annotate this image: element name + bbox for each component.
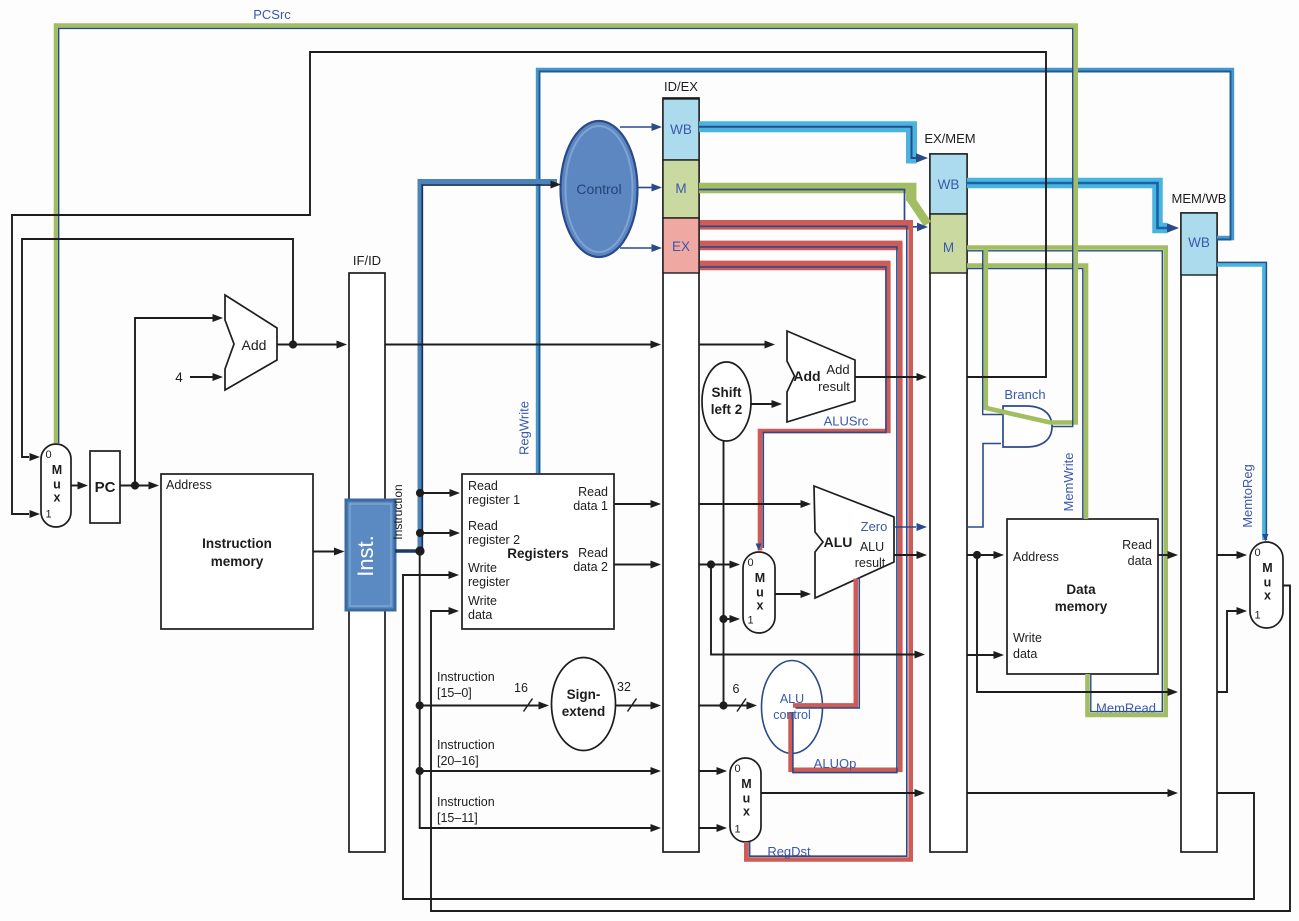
node read register 2 junction xyxy=(416,529,424,537)
wire pc-mux to PC xyxy=(71,485,78,487)
wire shift left 2 to branch Add xyxy=(750,403,772,405)
svg-text:M: M xyxy=(741,777,751,791)
svg-text:WB: WB xyxy=(1188,235,1210,250)
MEM/WB WB cell xyxy=(1181,213,1217,275)
svg-text:Read: Read xyxy=(468,519,498,533)
node ALU result junction xyxy=(973,551,981,559)
node instruction [20-16] junction xyxy=(416,767,424,775)
svg-text:u: u xyxy=(1264,576,1272,590)
mux M3 reg-dst xyxy=(730,758,761,842)
svg-text:M: M xyxy=(755,571,765,585)
wire Zero from ALU to EX/MEM xyxy=(894,526,916,528)
svg-text:1: 1 xyxy=(1254,610,1260,622)
wire ALU control output to ALU (red) xyxy=(793,579,856,706)
shift left 2 ellipse xyxy=(702,362,751,441)
wire Control to ID/EX M xyxy=(638,187,653,189)
wire Zero flag into AND gate xyxy=(967,444,1001,528)
svg-text:data: data xyxy=(1128,554,1152,568)
svg-text:PCSrc: PCSrc xyxy=(253,7,291,22)
bus width tick 32 xyxy=(628,699,637,712)
svg-text:Read: Read xyxy=(578,485,608,499)
wire PC to instruction memory xyxy=(120,485,149,487)
node immediate junction xyxy=(719,701,727,709)
svg-text:1: 1 xyxy=(45,509,51,521)
wire write data return path xyxy=(431,586,1290,912)
svg-text:ALUSrc: ALUSrc xyxy=(824,414,869,429)
wire instruction [15-0] to sign-extend xyxy=(420,705,539,707)
svg-text:Instruction: Instruction xyxy=(202,536,272,551)
wire Control to ID/EX WB xyxy=(620,126,652,128)
svg-text:data: data xyxy=(1013,647,1037,661)
svg-text:Instruction: Instruction xyxy=(437,795,495,809)
pipeline register MEM/WB xyxy=(1181,213,1217,852)
svg-text:MemRead: MemRead xyxy=(1096,701,1156,716)
wire instruction [20-16] to reg-dst mux xyxy=(699,770,717,772)
svg-text:0: 0 xyxy=(747,557,753,569)
svg-text:extend: extend xyxy=(562,704,606,719)
svg-text:WB: WB xyxy=(938,177,960,192)
svg-text:6: 6 xyxy=(733,682,740,696)
ALU control ellipse xyxy=(762,661,823,754)
svg-text:Data: Data xyxy=(1066,582,1096,597)
wire branch Add result to EX/MEM xyxy=(855,376,917,378)
wire alu-src mux to ALU xyxy=(775,593,801,595)
wire write register number return path xyxy=(403,575,1254,899)
wire read data 1 to ID/EX xyxy=(614,503,651,505)
svg-text:Control: Control xyxy=(576,181,621,197)
svg-text:memory: memory xyxy=(1055,599,1108,614)
svg-text:u: u xyxy=(53,478,61,492)
svg-text:Read: Read xyxy=(1122,538,1152,552)
svg-text:ALU: ALU xyxy=(780,692,804,706)
wire M bundle ID/EX to EX/MEM (green) xyxy=(699,188,911,201)
svg-text:data 1: data 1 xyxy=(573,499,608,513)
svg-text:Instruction: Instruction xyxy=(437,670,495,684)
svg-text:left 2: left 2 xyxy=(711,402,743,417)
svg-text:M: M xyxy=(675,181,686,196)
svg-text:EX: EX xyxy=(672,239,690,254)
EX/MEM WB cell xyxy=(930,154,967,214)
svg-text:register 2: register 2 xyxy=(468,533,520,547)
svg-text:16: 16 xyxy=(514,681,528,695)
svg-text:Read: Read xyxy=(578,546,608,560)
svg-text:register 1: register 1 xyxy=(468,493,520,507)
svg-text:x: x xyxy=(743,805,750,819)
svg-text:[20–16]: [20–16] xyxy=(437,754,479,768)
wire MemtoReg (cyan) xyxy=(1217,265,1264,541)
mux M1 pc-source xyxy=(41,444,71,527)
svg-text:memory: memory xyxy=(211,554,264,569)
wire ALUSrc control (red) xyxy=(700,261,891,271)
registers box xyxy=(462,474,614,629)
svg-text:x: x xyxy=(757,599,764,613)
wire ALU result to MEM/WB xyxy=(977,555,1168,692)
data memory box xyxy=(1007,519,1158,674)
wire Add output to IF/ID xyxy=(277,344,337,346)
svg-text:[15–11]: [15–11] xyxy=(437,811,478,825)
wire instruction bus highlight to Control xyxy=(420,182,557,552)
svg-text:Address: Address xyxy=(1013,550,1059,564)
svg-text:WB: WB xyxy=(670,122,692,137)
svg-text:u: u xyxy=(743,792,751,806)
bus width tick 6 xyxy=(737,699,746,712)
wire read data to mem-to-reg mux input 0 xyxy=(1217,554,1237,556)
svg-text:M: M xyxy=(1262,561,1272,575)
wire WB bundle ID/EX to EX/MEM (cyan) xyxy=(699,127,916,158)
svg-text:ALU: ALU xyxy=(824,534,853,550)
wire Branch signal into AND gate (green) xyxy=(983,248,988,410)
EX/MEM M cell xyxy=(930,214,967,273)
wire sign-extend to ID/EX xyxy=(616,705,652,707)
svg-text:EX/MEM: EX/MEM xyxy=(924,131,975,146)
svg-text:PC: PC xyxy=(95,479,116,496)
svg-text:Zero: Zero xyxy=(861,519,888,534)
svg-text:RegDst: RegDst xyxy=(767,844,811,859)
svg-text:ALUOp: ALUOp xyxy=(814,756,857,771)
svg-text:data 2: data 2 xyxy=(573,560,608,574)
wire immediate to ALU control xyxy=(699,705,747,707)
svg-text:1: 1 xyxy=(747,615,753,627)
wire read data 2 to alu-src mux input 0 xyxy=(699,564,730,566)
svg-text:32: 32 xyxy=(617,680,631,694)
svg-text:0: 0 xyxy=(734,763,740,775)
Inst. latch box xyxy=(346,500,395,610)
node read data 2 junction xyxy=(707,560,715,568)
svg-text:Add: Add xyxy=(242,337,267,353)
svg-text:Inst.: Inst. xyxy=(353,535,378,577)
pipeline register EX/MEM xyxy=(930,154,967,852)
node Add output junction xyxy=(289,340,297,348)
pipeline register IF/ID xyxy=(349,273,385,852)
wire read data 2 to data memory write data xyxy=(711,565,915,655)
svg-text:x: x xyxy=(54,491,61,505)
svg-text:Write: Write xyxy=(468,561,497,575)
wire instruction bus vertical xyxy=(420,551,651,828)
wire ALU result to EX/MEM xyxy=(894,554,917,556)
ID/EX M cell xyxy=(663,160,699,218)
svg-text:Sign-: Sign- xyxy=(567,687,601,702)
wire PC+4 from ID/EX to branch Add xyxy=(699,344,765,346)
wire Inst. box output stub xyxy=(395,549,420,553)
svg-text:IF/ID: IF/ID xyxy=(353,253,381,268)
wire data memory read data to MEM/WB xyxy=(1158,554,1168,556)
wire immediate to alu-src mux input 1 xyxy=(724,618,731,620)
svg-text:data: data xyxy=(468,608,492,622)
node PC output junction xyxy=(131,481,139,489)
svg-text:Branch: Branch xyxy=(1004,387,1045,402)
wire MemWrite (green) xyxy=(967,266,1086,520)
bus width tick 16 xyxy=(524,699,533,712)
svg-text:M: M xyxy=(52,463,62,477)
svg-text:MemWrite: MemWrite xyxy=(1061,453,1076,512)
svg-text:0: 0 xyxy=(45,449,51,461)
svg-text:Instruction: Instruction xyxy=(437,738,495,752)
svg-text:control: control xyxy=(773,708,811,722)
mux M4 mem-to-reg xyxy=(1250,542,1283,628)
svg-text:ID/EX: ID/EX xyxy=(664,79,698,94)
svg-text:Add: Add xyxy=(793,368,820,384)
wire read register 1 xyxy=(420,492,450,494)
ID/EX EX cell xyxy=(663,218,699,273)
svg-text:result: result xyxy=(855,556,886,570)
svg-text:1: 1 xyxy=(734,824,740,836)
adder Add (branch target) xyxy=(787,331,855,422)
svg-text:register: register xyxy=(468,575,510,589)
svg-text:Address: Address xyxy=(166,478,212,492)
wire write data from EX/MEM to data memory xyxy=(967,654,994,656)
mux M2 alu-src xyxy=(743,552,775,633)
wire ALU result to mem-to-reg mux input 1 xyxy=(1217,611,1237,692)
wire ALUOp control (red) xyxy=(700,241,903,251)
wire Control to ID/EX EX xyxy=(620,247,652,249)
svg-text:[15–0]: [15–0] xyxy=(437,686,472,700)
wire read data 2 to ID/EX xyxy=(614,564,651,566)
svg-text:result: result xyxy=(818,379,850,394)
control unit ellipse xyxy=(561,121,638,257)
wire PC+4 loop to pc-mux input 0 xyxy=(22,239,293,457)
svg-text:MEM/WB: MEM/WB xyxy=(1172,191,1227,206)
ID/EX WB cell xyxy=(663,99,699,160)
svg-text:x: x xyxy=(1264,589,1271,603)
wire immediate up to shift left 2 xyxy=(723,441,725,706)
wire instruction [20-16] to ID/EX xyxy=(420,770,651,772)
svg-text:M: M xyxy=(943,240,954,255)
svg-text:Read: Read xyxy=(468,479,498,493)
node read register 1 junction xyxy=(416,489,424,497)
adder Add (PC+4) xyxy=(225,295,277,390)
wire read register 2 xyxy=(420,532,450,534)
svg-text:0: 0 xyxy=(1254,547,1260,559)
wire RegDst control (red) xyxy=(700,220,913,230)
wire branch target loop to pc-mux input 1 xyxy=(12,52,1046,514)
svg-text:RegWrite: RegWrite xyxy=(517,401,532,455)
wire reg-dst mux to EX/MEM xyxy=(761,792,915,794)
node instruction junction at Inst output xyxy=(415,546,424,555)
instruction memory box xyxy=(161,474,313,629)
pipeline register ID/EX xyxy=(663,98,699,852)
register PC xyxy=(90,451,120,523)
svg-text:MemtoReg: MemtoReg xyxy=(1240,464,1255,528)
wire instruction memory to Inst latch xyxy=(313,551,334,553)
wire RegWrite loop (MEM/WB.WB to Registers) xyxy=(538,70,1232,473)
svg-text:u: u xyxy=(756,586,764,600)
wire PC+4 from IF/ID to ID/EX xyxy=(385,344,651,346)
node instruction [15-0] junction xyxy=(416,701,424,709)
svg-text:ALU: ALU xyxy=(860,540,884,554)
node immediate to alu-src mux junction xyxy=(719,615,727,623)
svg-text:Registers: Registers xyxy=(507,546,569,561)
svg-text:4: 4 xyxy=(175,370,183,385)
sign-extend ellipse xyxy=(552,658,616,751)
svg-text:Write: Write xyxy=(1013,631,1042,645)
wire WB bundle EX/MEM to MEM/WB (cyan) xyxy=(967,183,1167,228)
svg-text:Write: Write xyxy=(468,594,497,608)
wire ALU result from EX/MEM to data memory address xyxy=(967,554,994,556)
wire read data 1 to ALU xyxy=(699,503,801,505)
wire PC to Add xyxy=(135,318,213,486)
wire write register number EX/MEM to MEM/WB xyxy=(967,792,1168,794)
wire MemRead (green) xyxy=(967,248,1166,716)
svg-text:Shift: Shift xyxy=(712,385,742,400)
wire instruction [15-11] to reg-dst mux xyxy=(699,827,717,829)
wire constant 4 to Add xyxy=(190,376,213,378)
ALU xyxy=(814,486,894,598)
svg-text:Add: Add xyxy=(826,362,849,377)
AND gate (branch) xyxy=(1003,406,1052,447)
wire PCSrc from AND gate to PC mux (green) xyxy=(56,26,1076,444)
svg-text:Instruction: Instruction xyxy=(391,484,405,539)
